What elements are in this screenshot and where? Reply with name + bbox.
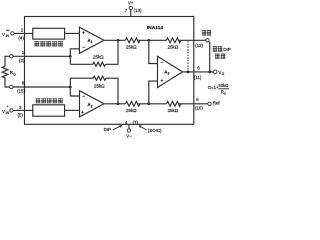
resistor 25k to ref pin	[167, 101, 181, 106]
svg-text:2: 2	[91, 104, 93, 108]
wire RG top connection	[5, 56, 10, 66]
overvoltage protection block 1	[33, 28, 65, 39]
svg-text:(4): (4)	[18, 36, 24, 41]
dashed internal DIP connection	[187, 41, 189, 71]
svg-text:25kΩ: 25kΩ	[94, 83, 105, 88]
svg-text:(13): (13)	[134, 8, 142, 13]
node pin 1 terminal (2)	[10, 50, 25, 63]
resistor 25k A1-to-A3	[126, 38, 140, 43]
node Ref terminal pin 5 (10)	[195, 97, 220, 111]
IC package outline box	[25, 17, 194, 125]
node feedback terminal (12)	[195, 39, 209, 48]
svg-text:DIP: DIP	[104, 127, 111, 132]
svg-text:V−: V−	[126, 134, 132, 139]
wire top rail to feedback terminal	[179, 39, 206, 41]
svg-text:3: 3	[168, 72, 170, 76]
svg-text:IN: IN	[6, 34, 10, 38]
node VIN- input terminal pin 2 (4)	[2, 28, 24, 41]
wire A3 inverting input drop	[149, 40, 158, 63]
svg-text:INA114: INA114	[147, 25, 164, 31]
wire bottom rail to ref terminal	[179, 103, 208, 105]
svg-text:+: +	[81, 110, 84, 116]
wire VIN- to protection block	[14, 32, 33, 34]
resistor 25k A2-to-A3	[126, 101, 140, 106]
svg-text:DIP: DIP	[223, 47, 231, 52]
label 超电压保护 (top block)	[34, 41, 63, 46]
label 反馈 (feedback)	[202, 30, 211, 35]
svg-text:(10): (10)	[195, 106, 203, 111]
resistor 25k A1 feedback	[93, 62, 106, 66]
svg-text:1: 1	[91, 40, 93, 44]
junction A2 feedback node	[69, 86, 72, 89]
svg-text:−: −	[82, 94, 85, 100]
label (SOIC) with arrow to pin (7)	[138, 125, 162, 133]
svg-text:Ref: Ref	[213, 101, 221, 106]
label 超电压保护 (bottom block)	[36, 98, 63, 103]
svg-text:+: +	[160, 78, 163, 84]
op-amp A2	[80, 91, 105, 117]
wire RG bottom connection	[5, 78, 10, 87]
svg-text:V+: V+	[128, 1, 134, 6]
overvoltage protection block 2	[33, 105, 65, 116]
svg-text:(5): (5)	[18, 112, 24, 117]
wire mid top rail	[138, 39, 166, 41]
junction bottom rail / A3 non-inverting	[147, 102, 150, 105]
svg-text:25kΩ: 25kΩ	[168, 108, 179, 113]
wire A3 non-inverting input rise	[149, 81, 158, 104]
wire A2 inverting input rise	[70, 78, 79, 96]
svg-text:G=1+: G=1+	[208, 85, 219, 90]
svg-text:−: −	[160, 60, 163, 66]
node VIN+ input terminal pin 3 (5)	[2, 105, 23, 118]
svg-text:25kΩ: 25kΩ	[93, 55, 104, 60]
node pin 8 terminal (15)	[10, 80, 26, 93]
svg-text:−: −	[82, 45, 85, 51]
wire protection block 1 to A1 + input	[65, 32, 80, 34]
label DIP with arrow to pin 4	[104, 125, 123, 132]
svg-text:(11): (11)	[194, 75, 202, 80]
node V- terminal pin 4 (7)	[125, 120, 139, 139]
svg-text:50kΩ: 50kΩ	[219, 83, 229, 88]
resistor 25k A2 feedback	[93, 76, 106, 80]
svg-text:(12): (12)	[195, 43, 203, 48]
op-amp A1	[79, 27, 104, 53]
wire A1 feedback row right + up to output	[106, 40, 119, 64]
svg-text:IN: IN	[6, 111, 10, 115]
svg-text:+: +	[82, 31, 85, 37]
label gain equation G=1+50k/RG	[208, 83, 229, 95]
node V+ terminal pin 7 (13)	[125, 1, 142, 17]
wire A2 feedback row left	[70, 77, 93, 79]
label 内部DIP连接	[213, 46, 226, 58]
wire A2 feedback row right + down to output	[106, 78, 118, 104]
svg-text:+: +	[6, 105, 8, 109]
svg-text:25kΩ: 25kΩ	[126, 108, 137, 113]
wire A1 inverting input drop	[70, 49, 79, 65]
svg-text:25kΩ: 25kΩ	[126, 44, 137, 49]
svg-text:G: G	[13, 72, 16, 76]
svg-text:25kΩ: 25kΩ	[168, 44, 179, 49]
wire pin 1 to A1 feedback node	[13, 55, 70, 57]
wire feedback terminal down to output	[209, 42, 211, 72]
svg-text:(15): (15)	[17, 88, 25, 93]
wire VIN+ to protection block 2	[13, 109, 33, 111]
wire A2 output	[104, 103, 126, 105]
junction dashed bottom	[187, 71, 190, 74]
junction A1 output	[117, 39, 120, 42]
wire A1 output	[104, 39, 126, 41]
op-amp A3	[158, 56, 183, 87]
junction A2 output	[117, 102, 120, 105]
node VO terminal pin 6 (11)	[194, 66, 225, 81]
wire mid bottom rail	[138, 103, 166, 105]
svg-text:(SOIC): (SOIC)	[148, 128, 162, 133]
wire A1 feedback row left	[70, 63, 93, 65]
svg-text:(2): (2)	[19, 58, 25, 63]
junction A1 feedback node	[69, 55, 72, 58]
resistor 25k to feedback pin	[167, 38, 181, 43]
svg-text:(7): (7)	[133, 120, 139, 125]
junction feedback wire bottom	[208, 71, 211, 74]
resistor RG	[2, 66, 8, 78]
wire A3 output to VO	[183, 71, 214, 73]
wire pin 8 to A2 feedback node	[13, 86, 70, 88]
wire protection block 2 to A2 + input	[65, 109, 80, 111]
junction top rail / A3 inverting	[147, 39, 150, 42]
